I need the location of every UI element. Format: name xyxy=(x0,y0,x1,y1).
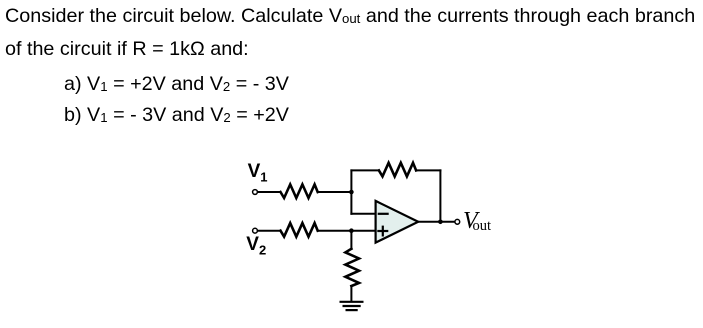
resistor R (V1 input) xyxy=(281,184,318,198)
wire xyxy=(318,191,352,193)
resistor R (feedback) xyxy=(379,163,416,177)
wire xyxy=(258,230,281,232)
resistor R (V2 input) xyxy=(281,223,318,237)
label V1 xyxy=(248,162,268,187)
label V2 xyxy=(246,235,266,260)
wire (to inverting input) xyxy=(351,213,375,215)
terminal Vout xyxy=(455,219,460,224)
node C (output junction) xyxy=(438,220,443,225)
wire (feedback top left) xyxy=(351,169,379,171)
wire (down to ground resistor) xyxy=(350,231,352,249)
wire xyxy=(258,191,281,193)
node A (inverting input junction) xyxy=(349,190,354,195)
wire (op-amp output) xyxy=(418,221,455,223)
wire (to non-inverting input) xyxy=(318,230,376,232)
wire (right vertical of feedback loop) xyxy=(439,170,441,221)
op-amp minus symbol xyxy=(379,213,388,215)
wire (to ground) xyxy=(350,286,352,301)
ground xyxy=(341,302,363,310)
terminal V1 xyxy=(253,190,258,195)
op-amp plus symbol xyxy=(378,227,387,236)
resistor R (to ground) xyxy=(345,249,359,286)
terminal V2 xyxy=(253,228,258,233)
label Vout xyxy=(463,209,491,238)
wire (feedback top right) xyxy=(416,169,440,171)
wire (left vertical of feedback loop) xyxy=(350,170,352,213)
node B (non-inverting input junction) xyxy=(349,228,354,233)
op-amp U1 xyxy=(376,201,419,243)
